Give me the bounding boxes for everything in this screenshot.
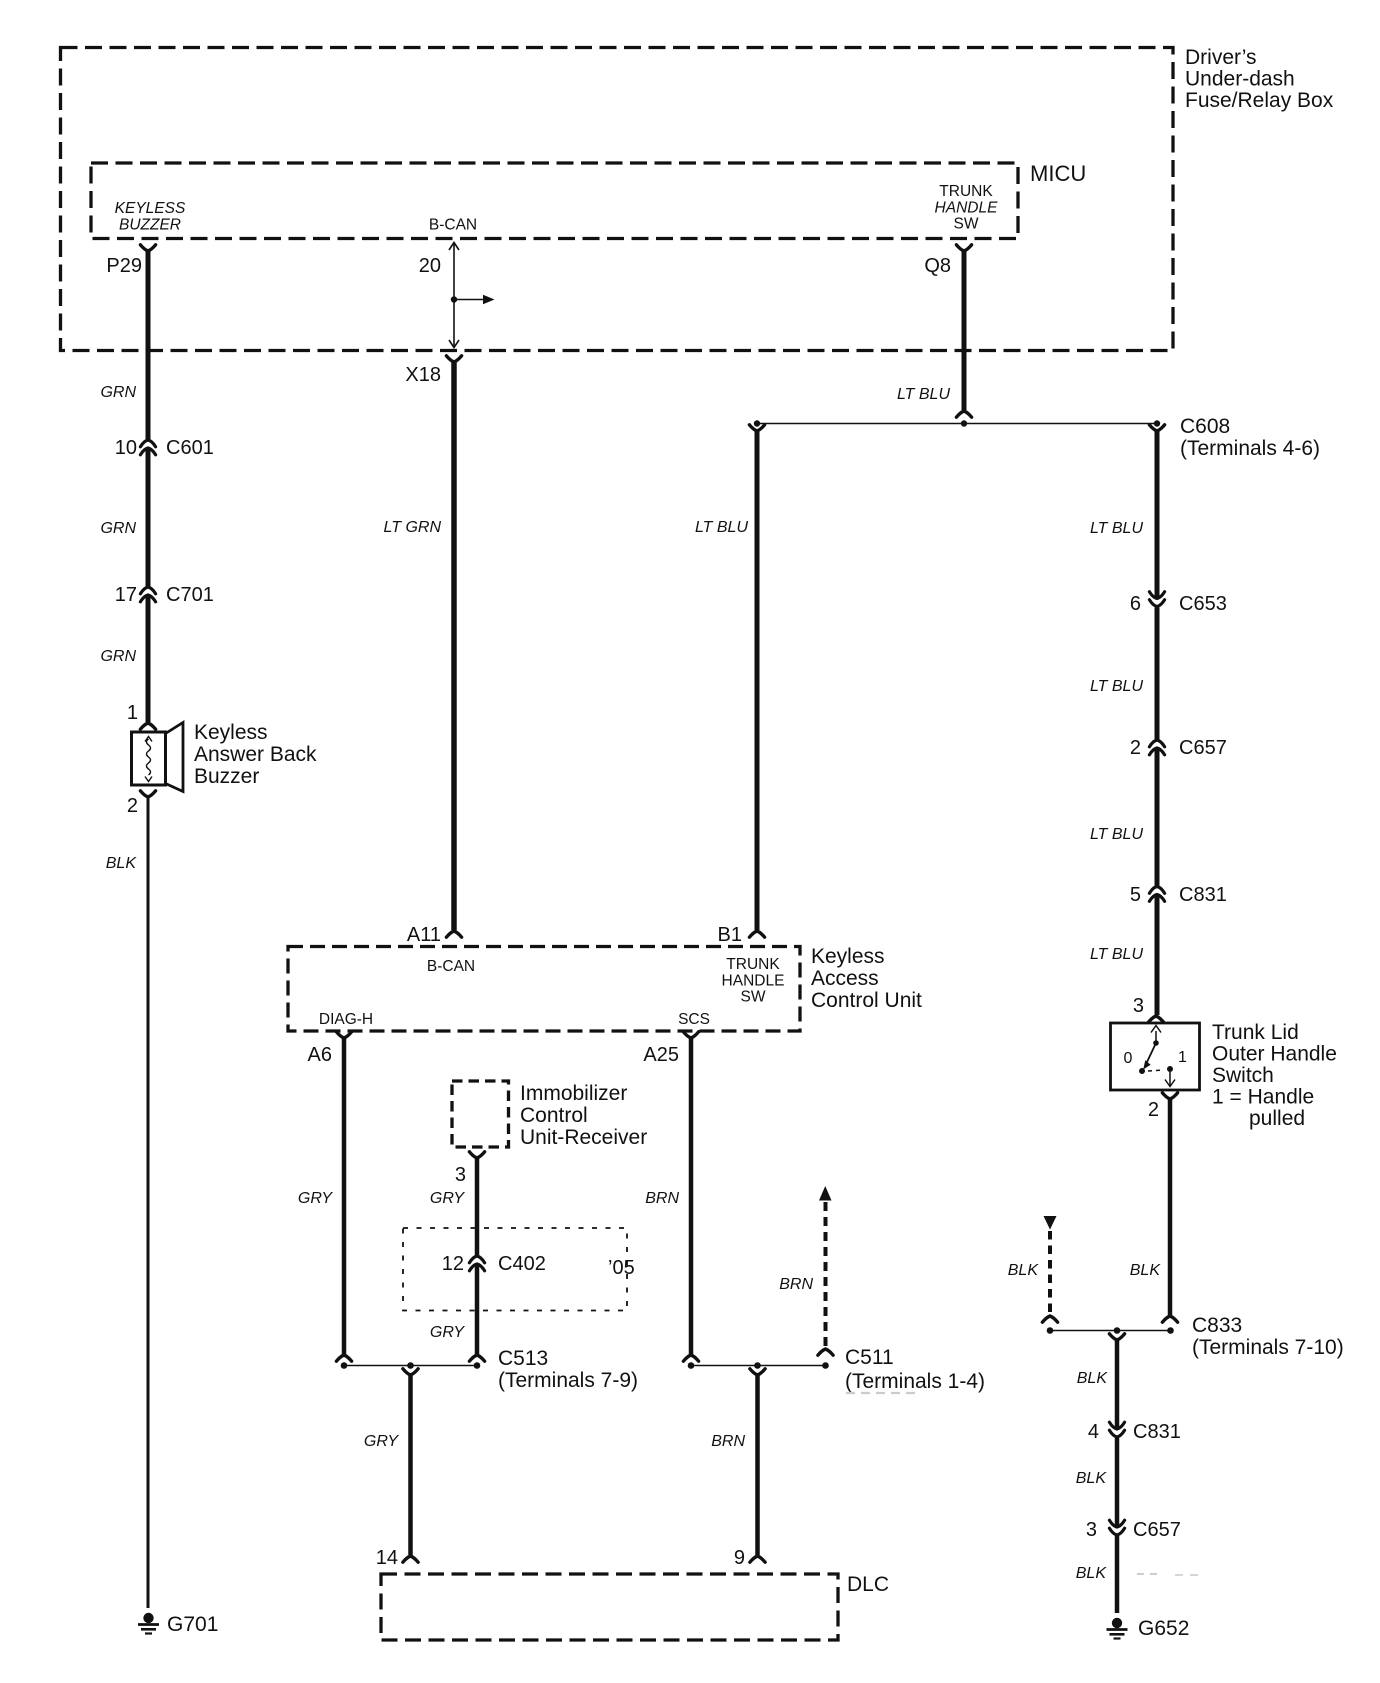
connector C653 (in-line)	[1149, 600, 1164, 607]
svg-text:BLK: BLK	[1076, 1470, 1108, 1487]
svg-text:SW: SW	[954, 216, 979, 233]
terminal wings at bottom of A6 wire	[336, 1355, 351, 1361]
svg-text:Control: Control	[520, 1104, 588, 1127]
svg-text:(Terminals 7-10): (Terminals 7-10)	[1192, 1336, 1344, 1359]
wire: C657 to C831 (LT BLU)	[1155, 748, 1160, 886]
terminal wings at DLC pin 9	[750, 1556, 765, 1562]
connector C601 (in-line)	[140, 440, 155, 447]
connector C402 (in-line)	[469, 1256, 484, 1263]
box: Driver's Under-dash Fuse/Relay Box (dashed outline)	[61, 48, 1174, 351]
svg-text:LT BLU: LT BLU	[897, 386, 951, 403]
svg-text:LT BLU: LT BLU	[1090, 946, 1144, 963]
svg-text:Trunk Lid: Trunk Lid	[1212, 1021, 1299, 1044]
svg-text:GRY: GRY	[430, 1324, 465, 1341]
svg-text:5: 5	[1130, 884, 1141, 906]
svg-text:BRN: BRN	[645, 1190, 679, 1207]
svg-text:Buzzer: Buzzer	[194, 765, 259, 788]
svg-text:Answer Back: Answer Back	[194, 743, 317, 766]
svg-text:SCS: SCS	[678, 1011, 710, 1028]
svg-text:BRN: BRN	[779, 1276, 813, 1293]
svg-text:2: 2	[1148, 1099, 1159, 1121]
svg-text:3: 3	[1086, 1519, 1097, 1541]
svg-text:pulled: pulled	[1249, 1107, 1305, 1130]
terminal wings below C513 splice	[403, 1369, 418, 1375]
switch internal: common contact dot	[1153, 1040, 1159, 1046]
svg-text:GRN: GRN	[100, 648, 136, 665]
terminal wings below immobilizer	[469, 1152, 484, 1158]
wire: C831 to trunk switch pin 3 (LT BLU)	[1155, 895, 1160, 1016]
wire: P29 to C601 (GRN)	[146, 251, 151, 439]
wire: C653 to C657 (LT BLU)	[1155, 608, 1160, 740]
svg-text:Outer Handle: Outer Handle	[1212, 1043, 1337, 1066]
svg-text:12: 12	[442, 1253, 464, 1275]
wire: splice to C653 (LT BLU)	[1155, 431, 1160, 599]
svg-text:(Terminals 1-4): (Terminals 1-4)	[845, 1370, 985, 1393]
svg-text:P29: P29	[106, 255, 142, 277]
terminal wings at DLC pin 14	[403, 1556, 418, 1562]
svg-text:MICU: MICU	[1030, 161, 1086, 186]
svg-text:C608: C608	[1180, 415, 1230, 438]
svg-text:1 = Handle: 1 = Handle	[1212, 1086, 1314, 1109]
terminal wings at B1	[749, 931, 764, 937]
scan artifact underline below C511 label	[846, 1392, 920, 1394]
buzzer speaker cone	[166, 723, 184, 792]
svg-text:BLK: BLK	[1008, 1262, 1040, 1279]
wire: C657 to G652 (BLK)	[1115, 1536, 1120, 1613]
terminal wings at end of Q8 wire	[956, 411, 971, 417]
connector C831 pin 4 (in-line)	[1109, 1430, 1124, 1437]
switch internal: contact 1 dot	[1167, 1066, 1173, 1072]
svg-text:2: 2	[127, 795, 138, 817]
switch internal: lever arm (position 0)	[1147, 1043, 1156, 1062]
svg-text:Switch: Switch	[1212, 1064, 1274, 1087]
junction dot right (C833)	[1167, 1327, 1174, 1334]
terminal wings at top of B1 wire	[749, 425, 764, 431]
svg-text:1: 1	[1178, 1049, 1187, 1066]
svg-text:Immobilizer: Immobilizer	[520, 1082, 627, 1105]
svg-text:BLK: BLK	[1076, 1565, 1108, 1582]
svg-text:BRN: BRN	[711, 1433, 745, 1450]
svg-text:Control Unit: Control Unit	[811, 989, 922, 1012]
junction bus line C833	[1050, 1330, 1171, 1332]
svg-text:B-CAN: B-CAN	[429, 217, 477, 234]
wire: C701 to buzzer pin 1 (GRN)	[146, 595, 151, 722]
keyless answer back buzzer (speaker body)	[132, 732, 166, 785]
wire: switch pin 2 to C833 (BLK)	[1168, 1099, 1173, 1315]
svg-text:Driver’s: Driver’s	[1185, 46, 1257, 69]
junction dot right (C511)	[822, 1362, 829, 1369]
junction bus line C513	[344, 1365, 477, 1367]
wire: A25 to C511 splice (BRN)	[689, 1038, 694, 1355]
svg-text:DLC: DLC	[847, 1573, 889, 1596]
box: Keyless Access Control Unit (dashed outline)	[288, 947, 800, 1032]
svg-text:14: 14	[376, 1547, 398, 1569]
junction dot left (C513)	[341, 1362, 348, 1369]
terminal wings at switch pin 3	[1148, 1016, 1163, 1022]
svg-text:Keyless: Keyless	[194, 721, 268, 744]
svg-text:A25: A25	[643, 1044, 679, 1066]
switch internal: pin3 lead with up arrow	[1155, 1031, 1157, 1041]
svg-text:C831: C831	[1133, 1421, 1181, 1443]
svg-text:GRN: GRN	[100, 384, 136, 401]
terminal wings at bottom of dashed BRN wire	[818, 1349, 833, 1355]
wire: A6 to C513 splice (GRY)	[342, 1038, 347, 1355]
svg-text:LT BLU: LT BLU	[1090, 520, 1144, 537]
terminal wings at X18	[446, 356, 461, 362]
svg-text:GRY: GRY	[298, 1190, 333, 1207]
wire: C402 to C513 splice (GRY)	[475, 1264, 480, 1355]
terminal wings at top of C608 branch	[1149, 425, 1164, 431]
box: trunk lid outer handle switch	[1111, 1023, 1200, 1090]
wire: C831 to C657 (BLK)	[1115, 1438, 1120, 1527]
wire: C601 to C701 (GRN)	[146, 448, 151, 586]
svg-text:3: 3	[1133, 995, 1144, 1017]
svg-text:LT BLU: LT BLU	[695, 519, 749, 536]
svg-text:0: 0	[1124, 1050, 1133, 1067]
svg-text:(Terminals 4-6): (Terminals 4-6)	[1180, 437, 1320, 460]
dashed wire BRN to C511	[824, 1202, 828, 1348]
svg-text:20: 20	[419, 255, 441, 277]
svg-text:A6: A6	[308, 1044, 332, 1066]
terminal wings at Q8	[956, 245, 971, 251]
wire: buzzer pin 2 to G701 (BLK)	[147, 797, 150, 1608]
switch internal: dashed link to contact 1	[1148, 1070, 1164, 1071]
junction dot right (C513)	[474, 1362, 481, 1369]
wire: C513 to DLC pin 14 (GRY)	[408, 1375, 413, 1555]
buzzer coil element	[147, 739, 151, 775]
svg-text:C833: C833	[1192, 1314, 1242, 1337]
terminal wings below C833 splice	[1109, 1334, 1124, 1340]
svg-text:2: 2	[1130, 737, 1141, 759]
svg-text:BUZZER: BUZZER	[119, 217, 181, 234]
connector C831 (in-line)	[1149, 887, 1164, 894]
svg-text:BLK: BLK	[1130, 1262, 1162, 1279]
svg-text:’05: ’05	[608, 1257, 635, 1279]
svg-text:G652: G652	[1138, 1617, 1189, 1640]
junction bus line C511	[691, 1365, 826, 1367]
wire: C511 to DLC pin 9 (BRN)	[755, 1375, 760, 1555]
svg-text:3: 3	[455, 1164, 466, 1186]
terminal wings at P29	[140, 245, 155, 251]
connector C701 (in-line)	[140, 587, 155, 594]
terminal wings at bottom of switch wire	[1162, 1316, 1177, 1322]
svg-text:GRY: GRY	[430, 1190, 465, 1207]
svg-text:6: 6	[1130, 593, 1141, 615]
svg-text:C657: C657	[1179, 737, 1227, 759]
svg-text:LT BLU: LT BLU	[1090, 678, 1144, 695]
svg-text:TRUNK: TRUNK	[726, 956, 780, 973]
connector C657 pin 3 (in-line)	[1109, 1528, 1124, 1535]
wire: X18 to A11 (LT GRN)	[451, 362, 457, 930]
svg-text:B-CAN: B-CAN	[427, 958, 475, 975]
svg-text:B1: B1	[718, 924, 742, 946]
wire: C833 to C831 (BLK)	[1115, 1340, 1120, 1429]
svg-text:1: 1	[127, 702, 138, 724]
svg-text:LT BLU: LT BLU	[1090, 826, 1144, 843]
terminal wings at A6	[336, 1032, 351, 1038]
svg-text:C513: C513	[498, 1347, 548, 1370]
junction dot right (C608 branch)	[1154, 420, 1160, 426]
box: Immobilizer Control Unit-Receiver (dashed)	[452, 1081, 509, 1147]
svg-text:Under-dash: Under-dash	[1185, 68, 1295, 91]
ground G652 (symbol)	[1112, 1618, 1122, 1628]
svg-text:G701: G701	[167, 1613, 218, 1636]
terminal wings at bottom of A25 wire	[683, 1355, 698, 1361]
switch internal: contact 0 dot	[1139, 1068, 1145, 1074]
terminal wings below C511 splice	[750, 1369, 765, 1375]
svg-text:9: 9	[734, 1547, 745, 1569]
off-page arrow (BLK dashed wire)	[1044, 1216, 1057, 1230]
svg-text:BLK: BLK	[1077, 1370, 1109, 1387]
svg-text:C511: C511	[845, 1346, 894, 1369]
dashed wire BLK to C833	[1048, 1231, 1052, 1315]
svg-text:Access: Access	[811, 967, 879, 990]
terminal wings at A11	[446, 931, 461, 937]
terminal wings at bottom of immob wire	[469, 1355, 484, 1361]
junction dot middle (C833)	[1114, 1327, 1121, 1334]
wire: Q8 down to junction (LT BLU)	[962, 251, 967, 410]
svg-text:C657: C657	[1133, 1519, 1181, 1541]
svg-text:HANDLE: HANDLE	[722, 973, 785, 990]
svg-text:C831: C831	[1179, 884, 1227, 906]
junction dot middle (C513)	[407, 1362, 414, 1369]
svg-text:C601: C601	[166, 437, 214, 459]
svg-text:LT GRN: LT GRN	[384, 519, 442, 536]
B-CAN internal routing arrow (double-headed, with branch arrow)	[453, 243, 455, 347]
wire: immobilizer pin 3 to C402 (GRY)	[475, 1158, 480, 1255]
wire: splice to B1 (LT BLU)	[755, 431, 760, 930]
terminal wings at bottom of dashed BLK wire	[1042, 1316, 1057, 1322]
scan artifact dashes right of BLK	[1137, 1573, 1160, 1575]
svg-text:(Terminals 7-9): (Terminals 7-9)	[498, 1369, 638, 1392]
svg-text:Unit-Receiver: Unit-Receiver	[520, 1126, 647, 1149]
switch internal: pin2 lead with down arrow	[1169, 1072, 1171, 1086]
terminal wings at A25	[683, 1032, 698, 1038]
junction dot middle (Q8)	[961, 420, 967, 426]
svg-text:TRUNK: TRUNK	[939, 183, 993, 200]
box: DLC (dashed outline)	[381, 1574, 838, 1640]
junction bus line (C608 splice)	[757, 423, 1157, 425]
junction dot left (C511)	[688, 1362, 695, 1369]
svg-text:C701: C701	[166, 584, 214, 606]
svg-text:Q8: Q8	[924, 255, 951, 277]
svg-text:10: 10	[115, 437, 137, 459]
svg-text:DIAG-H: DIAG-H	[319, 1011, 373, 1028]
junction dot middle (C511)	[754, 1362, 761, 1369]
svg-text:BLK: BLK	[106, 855, 138, 872]
connector C657 (in-line)	[1149, 740, 1164, 747]
svg-text:KEYLESS: KEYLESS	[115, 200, 186, 217]
terminal wings at switch pin 2	[1162, 1093, 1177, 1099]
svg-text:C653: C653	[1179, 593, 1227, 615]
box: MICU (dashed outline)	[91, 163, 1018, 239]
terminal wings at buzzer pin 1	[140, 723, 155, 729]
svg-text:HANDLE: HANDLE	[935, 200, 999, 217]
ground G701 (symbol)	[143, 1613, 153, 1623]
junction dot left (C833)	[1047, 1327, 1054, 1334]
off-page arrow (BRN dashed wire)	[819, 1186, 832, 1201]
svg-text:Keyless: Keyless	[811, 945, 885, 968]
box: C402 option frame (dotted)	[403, 1228, 627, 1311]
svg-text:17: 17	[115, 584, 137, 606]
junction dot left (B1 branch)	[754, 420, 760, 426]
svg-text:GRY: GRY	[364, 1433, 399, 1450]
terminal wings at buzzer pin 2	[140, 791, 155, 797]
svg-text:SW: SW	[741, 989, 766, 1006]
svg-text:GRN: GRN	[100, 520, 136, 537]
svg-text:A11: A11	[407, 924, 441, 946]
svg-text:Fuse/Relay Box: Fuse/Relay Box	[1185, 89, 1334, 112]
svg-text:C402: C402	[498, 1253, 546, 1275]
svg-text:4: 4	[1088, 1421, 1099, 1443]
svg-text:X18: X18	[405, 364, 441, 386]
